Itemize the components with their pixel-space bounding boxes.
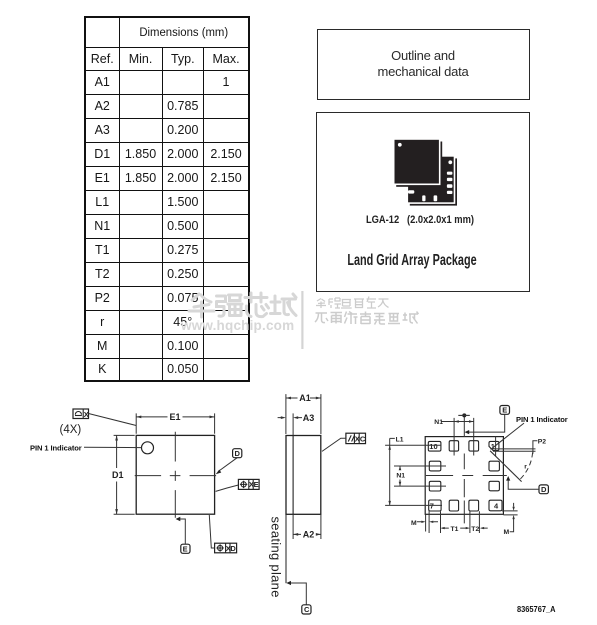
svg-text:r: r xyxy=(524,464,527,471)
package box xyxy=(316,112,530,292)
svg-text:L1: L1 xyxy=(396,437,404,444)
svg-text:C: C xyxy=(304,605,310,614)
side view: A1 extension lines xyxy=(286,394,321,434)
dimensions T1 T2 xyxy=(441,511,488,533)
svg-text:E: E xyxy=(183,545,188,554)
LGA-12 caption xyxy=(329,214,511,226)
footer code xyxy=(517,605,555,614)
datum label C with leader xyxy=(286,581,311,614)
svg-text:A2: A2 xyxy=(303,530,315,540)
svg-text:X: X xyxy=(84,410,89,419)
outline and mechanical data box xyxy=(317,29,530,100)
bottom view: pad 11 xyxy=(449,441,458,451)
chamfer 45 degree line xyxy=(490,451,521,482)
svg-text:(4X): (4X) xyxy=(60,424,82,436)
bottom view: pad 12 xyxy=(469,441,479,451)
svg-text:A1: A1 xyxy=(299,393,311,403)
chip picture: bottom-view die with shadow xyxy=(407,156,457,206)
datum label D (bottom view) xyxy=(506,476,548,494)
bottom view: pad 3 xyxy=(489,481,499,491)
side view: package body xyxy=(286,436,321,515)
label PIN 1 Indicator (bottom view) xyxy=(492,415,568,449)
svg-text:P2: P2 xyxy=(538,439,547,446)
svg-text:www.hqchip.com: www.hqchip.com xyxy=(180,318,294,333)
bottom view: pad 1 chamfered xyxy=(489,441,499,450)
dimension A2 xyxy=(293,530,321,540)
watermark right small glyphs row1 xyxy=(316,297,389,309)
bottom view: horizontal centerline xyxy=(426,475,507,477)
svg-text:E: E xyxy=(254,480,259,489)
side view: A3 extension line xyxy=(292,413,294,435)
svg-text:T2: T2 xyxy=(471,526,479,533)
top view: horizontal centerline xyxy=(135,475,216,477)
svg-text:M: M xyxy=(504,529,510,536)
datum label D (top view) xyxy=(216,449,242,475)
dimension A3 xyxy=(278,413,315,423)
extension line through pad 1 xyxy=(495,436,497,456)
bottom view: pad 2 xyxy=(489,461,499,471)
datum target E box (bottom view) xyxy=(465,406,510,435)
svg-text:7: 7 xyxy=(430,502,434,511)
svg-text:E1: E1 xyxy=(170,412,181,422)
dimension L1 xyxy=(388,437,403,506)
top view: E1 extension lines xyxy=(136,413,214,433)
svg-text:N1: N1 xyxy=(434,419,443,426)
dimension D1 xyxy=(112,435,124,514)
bottom view: pad 8 xyxy=(429,481,441,491)
dimension A1 xyxy=(286,393,321,403)
svg-text:D: D xyxy=(230,544,236,553)
bottom view: package outline xyxy=(425,437,503,515)
bottom view: pad 4 xyxy=(489,500,502,511)
dimension M left xyxy=(411,511,438,533)
bottom view: row extension lines left xyxy=(385,445,446,505)
dimensions table xyxy=(84,16,250,382)
bottom view: pad 6 xyxy=(449,500,458,511)
angle r arc xyxy=(520,453,532,480)
svg-text:D1: D1 xyxy=(112,470,124,480)
svg-text:N1: N1 xyxy=(396,472,405,479)
position tolerance frame X E xyxy=(216,479,260,491)
chip picture: bottom-view pads xyxy=(408,160,452,201)
top view: vertical centerline xyxy=(174,432,176,518)
bottom view: center dot and tick xyxy=(458,413,470,417)
top view: pin 1 indicator circle xyxy=(142,442,154,454)
svg-text:C: C xyxy=(360,434,366,443)
bottom view: pad 7 xyxy=(429,500,441,511)
side view: A2 extension lines xyxy=(293,514,321,539)
svg-text:PIN 1 Indicator: PIN 1 Indicator xyxy=(516,415,568,424)
svg-text:PIN 1 Indicator: PIN 1 Indicator xyxy=(30,443,82,452)
profile tolerance frame (4X) xyxy=(73,409,136,426)
side view: substrate line xyxy=(292,436,294,515)
chip picture: top-view die with shadow xyxy=(394,139,443,187)
svg-text:10: 10 xyxy=(429,442,437,451)
bottom view: pad 10 xyxy=(428,441,441,451)
watermark big hqchip glyphs xyxy=(189,293,296,317)
dimension P2 xyxy=(490,439,546,454)
svg-text:D: D xyxy=(541,485,547,494)
top view: package body outline xyxy=(136,435,214,514)
svg-text:M: M xyxy=(411,520,417,527)
svg-text:D: D xyxy=(235,449,241,458)
parallelism tolerance frame X C xyxy=(322,433,366,451)
svg-text:seating plane: seating plane xyxy=(269,517,284,598)
label PIN 1 Indicator (left) xyxy=(30,443,141,452)
dimension M right xyxy=(502,503,518,536)
bottom view: pad 5 xyxy=(469,500,479,511)
Land Grid Array Package caption xyxy=(337,252,487,270)
watermark divider bar xyxy=(301,291,303,349)
svg-text:T1: T1 xyxy=(451,526,459,533)
svg-text:E: E xyxy=(502,406,507,415)
bottom view: pad 9 xyxy=(429,461,441,471)
dimension N1 top xyxy=(434,419,473,426)
top view: D1 extension lines xyxy=(114,435,135,514)
seating plane extension line xyxy=(285,514,287,583)
dimension E1 xyxy=(136,412,214,422)
position tolerance frame X D xyxy=(209,515,236,553)
svg-text:A3: A3 xyxy=(303,413,315,423)
watermark right small glyphs row2 xyxy=(315,312,419,325)
datum label E (top view) xyxy=(176,517,190,554)
dimension N1 left xyxy=(396,466,405,486)
bottom view: vertical centerline xyxy=(463,415,465,523)
bottom view: top pad column extension lines xyxy=(454,418,474,456)
svg-text:4: 4 xyxy=(494,502,499,511)
